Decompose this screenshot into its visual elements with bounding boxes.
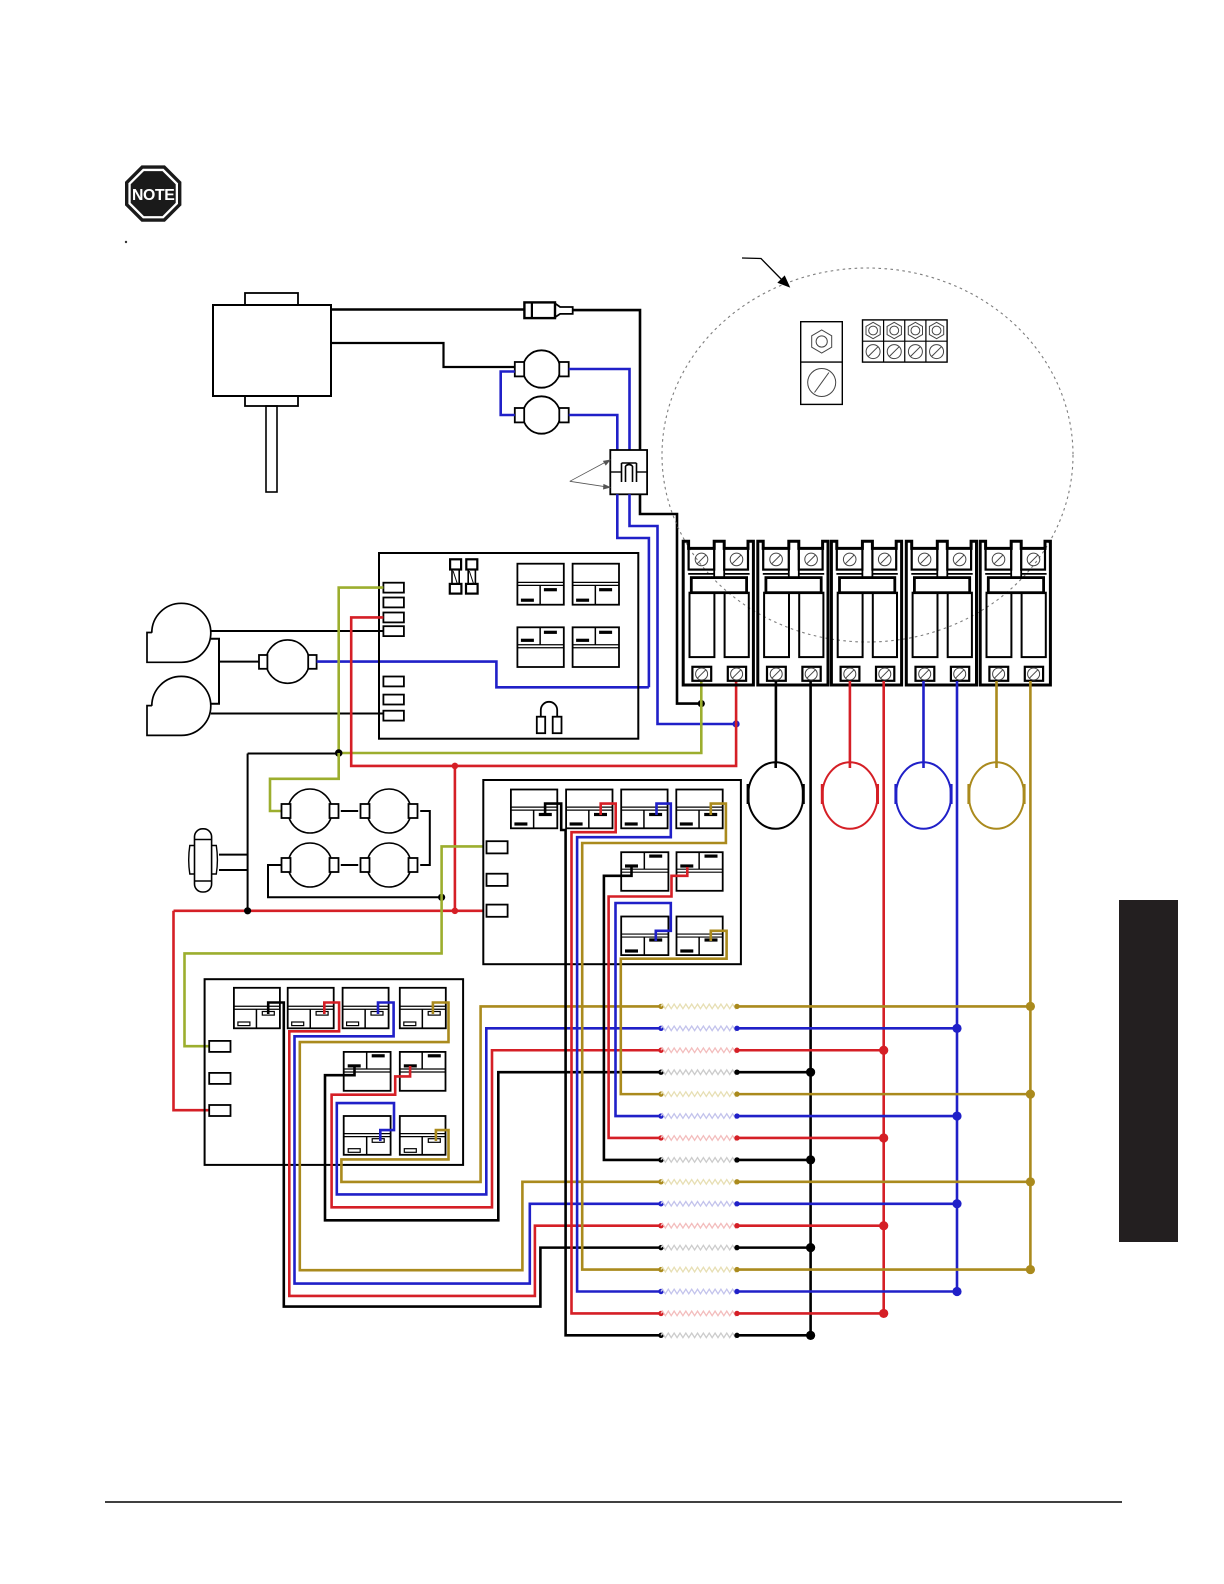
blue wire J1 to board — [617, 494, 649, 687]
contactor A2-3 — [621, 790, 667, 829]
lamp DS3 — [288, 843, 332, 887]
motor M1 — [266, 640, 309, 683]
socket L2 — [523, 396, 560, 433]
blue wire L2 right to connector — [569, 415, 618, 450]
wire lamp1-lamp2 — [341, 810, 358, 812]
heating element HE12 — [658, 1245, 663, 1250]
heating element HE11 — [658, 1223, 663, 1228]
svg-text:NOTE: NOTE — [132, 187, 174, 204]
gold feed row5 from A2-8 — [621, 931, 727, 1094]
blue wire CB4 to outlet — [922, 681, 925, 762]
board edge connectors — [383, 583, 404, 593]
contactor A2-5 — [621, 852, 668, 891]
lamp DS4 — [367, 843, 411, 887]
circuit breaker CB4 — [906, 541, 976, 685]
red wire to lower box — [174, 911, 210, 1110]
wire transformer second output — [331, 343, 515, 367]
contactor A2-6 — [677, 852, 723, 891]
olive wire box2 to box3 — [185, 846, 484, 1046]
circuit breaker CB5 — [980, 541, 1050, 685]
connector J1 body — [610, 450, 647, 494]
wire connector to corner — [573, 310, 701, 703]
black wire CB2 to outlet — [775, 681, 778, 762]
wire to motor — [219, 661, 259, 663]
contactor A2-2 — [566, 790, 612, 829]
lamp DS2 — [367, 789, 411, 833]
relay K3 — [517, 627, 563, 667]
box A3 connector — [209, 1073, 230, 1084]
red wire CB3 to outlet — [849, 681, 852, 762]
heating element HE8 — [658, 1157, 663, 1162]
red feed row7 from A2-6 — [609, 867, 688, 1138]
flasher E1 — [195, 829, 212, 892]
heating element HE10 — [658, 1201, 663, 1206]
relay box A2 — [483, 780, 741, 964]
generator/transformer T1 — [213, 305, 331, 396]
box A2 connector — [487, 841, 508, 853]
black feed row16 from A2-1 — [545, 804, 661, 1336]
wire lamp3-lamp4 — [341, 864, 358, 866]
heating element HE15 — [658, 1311, 663, 1316]
relay box A3 — [205, 979, 464, 1165]
contactor A2-7 — [621, 917, 668, 956]
red feed row11 from A3-2 — [289, 1003, 661, 1296]
inline connector J2 — [524, 302, 555, 318]
red bus from CB3 — [882, 681, 885, 1313]
horn H2 — [147, 676, 211, 735]
box A3 connector — [209, 1041, 230, 1052]
contactor A3-4 — [400, 988, 446, 1029]
contactor A3-2 — [288, 988, 334, 1029]
contactor A3-1 — [234, 988, 280, 1029]
terminal grid panel — [863, 320, 948, 362]
wire lamp3 return — [268, 865, 440, 897]
junction olive — [335, 749, 343, 757]
callout ellipse (detail bubble) — [662, 268, 1073, 642]
fuse F2 — [466, 559, 477, 569]
heating element HE16 — [658, 1333, 663, 1338]
heating element HE1 — [658, 1004, 663, 1009]
box A3 connector — [209, 1105, 230, 1116]
buzzer LS1 — [541, 702, 557, 717]
relay K4 — [573, 627, 619, 667]
outlet O2 — [822, 762, 877, 829]
blue feed row6 from A2-7 — [616, 903, 671, 1116]
gold bus from CB5 — [1029, 681, 1032, 1270]
blue feed row10 from A3-3 — [295, 1003, 662, 1284]
socket L1 — [523, 350, 560, 387]
blue wire L1-L2 left loop — [501, 372, 515, 416]
lamp DS1 — [288, 789, 332, 833]
gold feed row1 from A3-8 — [341, 1006, 661, 1182]
circuit breaker CB1 — [683, 541, 753, 685]
relay K2 — [573, 564, 619, 605]
nut/screw panel — [801, 322, 843, 405]
heating element HE14 — [658, 1289, 663, 1294]
junction red lower — [452, 908, 459, 915]
horn H1 — [147, 603, 211, 662]
page tab — [1119, 900, 1178, 1242]
gold wire CB5 to outlet — [995, 681, 998, 762]
contactor A3-6 — [400, 1052, 446, 1091]
fuse F1 — [450, 559, 461, 569]
contactor A2-4 — [676, 790, 722, 829]
red branch down — [454, 766, 457, 911]
blue wire motor to board — [317, 662, 649, 688]
outlet O1 — [748, 762, 803, 829]
blue feed row14 from A2-3 — [577, 804, 671, 1292]
footer rule — [105, 1501, 1122, 1503]
junction flasher-red — [244, 907, 251, 914]
heating element HE4 — [658, 1069, 663, 1074]
contactor A2-1 — [511, 790, 557, 829]
relay K1 — [517, 564, 563, 605]
red feed row3 from A3-6 — [332, 1050, 661, 1207]
wire H1 to board — [211, 630, 384, 632]
control board A1 — [379, 553, 638, 739]
blue wire J1 to red bus — [630, 494, 736, 724]
wire transformer top to connector — [331, 308, 524, 311]
junction lamp return on olive — [438, 894, 445, 901]
heating element HE9 — [658, 1179, 663, 1184]
heating element HE13 — [658, 1267, 663, 1272]
wire flasher terminals — [219, 854, 248, 856]
contactor A3-5 — [344, 1052, 391, 1091]
wire flasher bus — [247, 754, 249, 911]
gold feed row13 from A2-4 — [582, 804, 726, 1270]
junction red upper — [452, 763, 459, 770]
red feed row15 from A2-2 — [572, 804, 662, 1314]
wire horn link vertical — [211, 639, 219, 704]
circuit breaker CB2 — [758, 541, 828, 685]
black bus from CB2 — [809, 681, 812, 1335]
black feed row8 from A2-5 — [604, 867, 661, 1160]
contactor A3-8 — [400, 1116, 446, 1155]
wire H2 to board — [211, 713, 384, 715]
contactor A3-7 — [344, 1116, 391, 1155]
outlet O3 — [896, 762, 951, 829]
red wire breaker1 to board — [351, 617, 736, 766]
circuit breaker CB3 — [831, 541, 901, 685]
NOTE symbol — [125, 165, 181, 221]
olive wire breaker1 to board — [339, 681, 702, 753]
black feed row12 from A3-1 — [268, 1003, 661, 1307]
red wire heater box row — [174, 909, 484, 912]
leader arrow to ellipse — [742, 258, 789, 287]
box A2 connector — [487, 905, 508, 917]
junction blue-red — [733, 720, 740, 727]
stray period mark — [125, 241, 127, 243]
heating element HE2 — [658, 1026, 663, 1031]
junction black-olive — [698, 700, 705, 707]
outlet O4 — [969, 762, 1024, 829]
contactor A2-8 — [677, 917, 723, 956]
olive wire board connector — [339, 588, 384, 753]
blue feed row2 from A3-7 — [337, 1028, 661, 1194]
blue wire L1 right to connector — [569, 369, 630, 450]
black feed row4 from A3-5 — [325, 1066, 661, 1220]
contactor A3-3 — [343, 988, 389, 1029]
heating element HE5 — [658, 1091, 663, 1096]
leader lines to J1 — [570, 460, 610, 489]
heating element HE6 — [658, 1113, 663, 1118]
box A2 connector — [487, 874, 508, 886]
wire lamp2 to lamp4 — [420, 811, 430, 865]
heating element HE7 — [658, 1135, 663, 1140]
heating element HE3 — [658, 1048, 663, 1053]
gold feed row9 from A3-4 — [300, 1003, 661, 1271]
olive wire to lamps — [270, 753, 339, 811]
blue bus from CB4 — [956, 681, 959, 1291]
